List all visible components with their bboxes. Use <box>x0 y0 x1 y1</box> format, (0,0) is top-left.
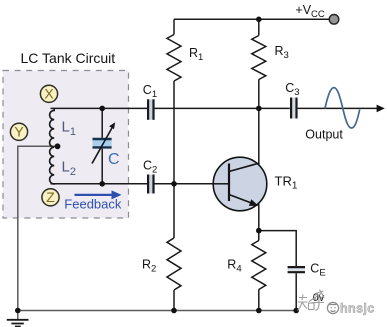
svg-text:Feedback: Feedback <box>64 197 122 212</box>
svg-text:Z: Z <box>46 189 55 205</box>
svg-text:LC Tank Circuit: LC Tank Circuit <box>21 50 116 66</box>
svg-text:X: X <box>44 85 54 101</box>
svg-text:Y: Y <box>14 123 24 139</box>
svg-text:hnsjc: hnsjc <box>340 302 375 316</box>
svg-text:C: C <box>108 151 120 168</box>
svg-text:Output: Output <box>305 127 343 141</box>
